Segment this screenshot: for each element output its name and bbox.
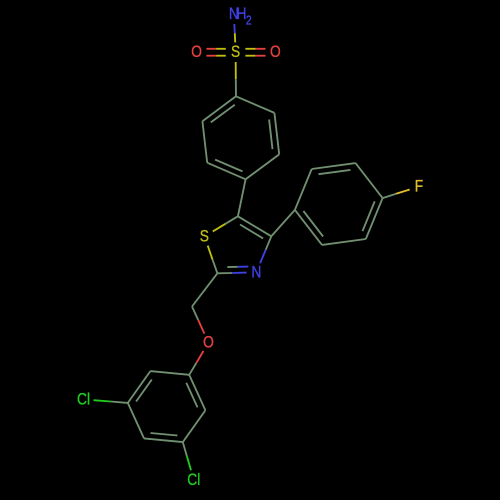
atom label N (thiazole N3) <box>251 263 261 282</box>
atom label F (fluorine) <box>415 177 423 196</box>
ring3 double bond C3c-C4c <box>144 433 183 442</box>
svg-text:F: F <box>415 177 423 196</box>
atom label O (ether) <box>203 333 214 352</box>
svg-text:O: O <box>203 333 214 352</box>
thiazole bond N3-C4 <box>260 236 271 263</box>
bond S-C1 (sulfonyl to ring1) <box>235 62 237 96</box>
thiazole double bond C2=N3 <box>217 267 248 274</box>
ring3 bond C2c-C3c <box>183 410 206 442</box>
svg-text:2: 2 <box>246 14 252 27</box>
ring3 double bond C5c-C6c <box>128 371 152 403</box>
bond O-C1c (ether to ring3) <box>189 351 203 375</box>
svg-text:H: H <box>237 5 247 24</box>
bond CH2-O (ether) <box>192 307 204 334</box>
bond C3c-Cl (bottom chlorine) <box>183 442 191 470</box>
atom label Cl (bottom chlorine) <box>187 471 200 490</box>
thiazole bond S1-C5 <box>213 216 238 231</box>
ring3 double bond C1c-C2c <box>186 375 205 411</box>
ring1 bond C5a-C6a <box>202 121 207 163</box>
atom label O (sulfonyl left) <box>191 43 202 62</box>
ring1 double bond C6a-C1 <box>202 96 236 122</box>
bond thiazole-fluorophenyl link <box>271 210 295 236</box>
ring3 bond C6c-C1c <box>150 371 189 375</box>
atom label S (thiazole S1) <box>200 227 209 246</box>
ring3 bond C4c-C5c <box>128 403 144 439</box>
thiazole bond S1-C2 <box>208 246 218 274</box>
bond C4b-F <box>383 190 410 199</box>
ring2 bond C1b-C2b <box>295 169 312 210</box>
double bond S=O right <box>245 49 265 56</box>
atom label O (sulfonyl right) <box>270 43 281 62</box>
ring2 double bond C4b-C5b <box>363 198 383 239</box>
bond C2-CH2 (methylene link) <box>192 273 217 306</box>
atom label Cl (left chlorine) <box>77 390 90 409</box>
ring1 bond C3a-C4a <box>246 154 280 179</box>
svg-text:Cl: Cl <box>77 390 90 409</box>
ring1 double bond C4a-C5a <box>207 160 245 180</box>
ring2 bond C5b-C6b <box>322 239 366 245</box>
atom label 2 subscript (amine NH2) <box>246 14 252 27</box>
ring1 bond C1-C2a <box>236 96 274 113</box>
ring2 double bond C2b-C3b <box>312 163 356 174</box>
svg-text:S: S <box>231 43 240 62</box>
atom label S (sulfonyl) <box>231 43 240 62</box>
bond N-S (sulfonamide N-S) <box>233 24 236 42</box>
ring2 bond C3b-C4b <box>356 163 383 198</box>
svg-text:N: N <box>251 263 261 282</box>
svg-text:O: O <box>191 43 202 62</box>
svg-text:Cl: Cl <box>187 471 200 490</box>
thiazole double bond C4=C5 <box>238 216 271 238</box>
svg-text:S: S <box>200 227 209 246</box>
bond C5c-Cl (left chlorine) <box>94 400 128 403</box>
ring2 double bond C6b-C1b <box>295 210 323 245</box>
atom label N (amine NH2) <box>229 5 239 24</box>
double bond S=O left <box>206 49 225 56</box>
bond ring1-thiazole link <box>238 179 246 216</box>
svg-text:O: O <box>270 43 281 62</box>
ring1 double bond C2a-C3a <box>269 113 279 154</box>
atom label H (amine NH2) <box>237 5 247 24</box>
